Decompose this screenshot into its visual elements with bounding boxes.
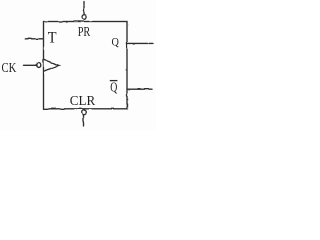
- bubble CK (active-low clock): [36, 63, 40, 67]
- wire T input: [25, 38, 43, 40]
- wire Qbar output: [127, 88, 152, 90]
- overline of Qbar: [110, 80, 118, 82]
- wire CLR input: [83, 115, 85, 126]
- wire PR input: [83, 2, 85, 15]
- clock edge triangle: [44, 60, 59, 72]
- svg-text:T: T: [48, 29, 57, 46]
- bubble CLR (active-low clear): [82, 110, 87, 115]
- svg-text:Q: Q: [112, 35, 120, 49]
- wire Q output: [127, 42, 153, 44]
- bubble PR (active-low preset): [82, 15, 87, 20]
- svg-text:PR: PR: [78, 25, 91, 40]
- svg-text:CLR: CLR: [70, 94, 96, 109]
- flip-flop body U1: [44, 22, 128, 109]
- svg-text:CK: CK: [2, 61, 17, 76]
- wire CK input: [24, 64, 37, 66]
- svg-text:Q: Q: [110, 80, 117, 95]
